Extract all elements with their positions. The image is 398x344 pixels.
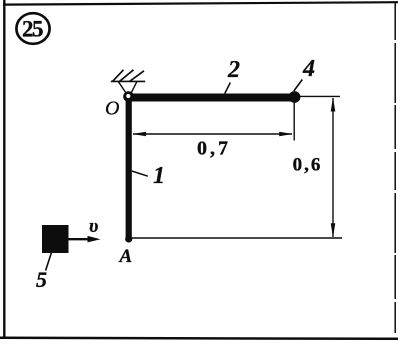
problem number badge 25 [16,13,49,44]
frame left border [3,0,5,338]
horizontal dimension line 0,7 [132,132,293,137]
velocity arrow v [69,236,101,243]
svg-text:O: O [105,98,119,120]
frame bottom border [0,338,398,339]
block 5 [42,225,69,253]
label A [119,246,133,267]
extension line below ball 4 [293,103,295,141]
svg-text:A: A [119,246,133,267]
label v [89,216,98,237]
svg-text:5: 5 [36,267,47,292]
extension line right of ball 4 [299,95,340,97]
label O [105,98,119,120]
svg-text:4: 4 [302,56,315,82]
dimension text 0,6 [293,155,323,176]
support hatching (fixed ceiling) [111,70,145,82]
label 2 with leader [225,57,240,94]
svg-text:2: 2 [227,57,240,83]
svg-text:0,6: 0,6 [293,155,323,176]
ball 4 [289,91,301,103]
svg-text:0,7: 0,7 [197,138,231,160]
frame top border [3,2,398,4]
extension line at A level [131,237,342,239]
label 1 with leader [132,163,165,189]
rod 2 (horizontal) [126,94,295,102]
svg-text:υ: υ [89,216,98,237]
dimension text 0,7 [197,138,231,160]
svg-text:25: 25 [22,17,43,42]
frame right border [394,2,396,333]
vertical dimension line 0,6 [331,97,336,237]
hinge pin at O [123,91,134,102]
rod 1 (vertical) [126,95,132,240]
end blob at A [125,235,132,242]
pivot triangle [119,82,137,96]
svg-text:1: 1 [153,163,165,189]
label 5 with leader [36,253,51,292]
label 4 with leader [294,56,315,91]
